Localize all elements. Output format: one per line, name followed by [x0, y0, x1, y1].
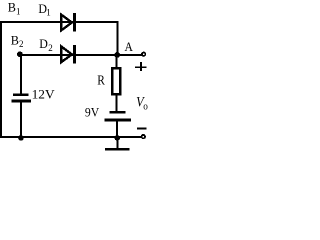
wire right vertical drop from D1 branch to node A	[116, 21, 118, 55]
wire left vertical	[0, 21, 2, 138]
svg-text:D: D	[39, 36, 48, 51]
wire 9V battery to bottom wire	[116, 121, 118, 138]
diode D2	[61, 45, 76, 64]
resistor R body	[112, 68, 120, 94]
battery 9V plate positive	[109, 111, 125, 114]
wire 12V battery top column from B2 node	[20, 55, 22, 94]
svg-text:9V: 9V	[85, 105, 99, 119]
svg-text:R: R	[97, 72, 105, 87]
wire node A down to resistor	[116, 55, 118, 69]
svg-text:o: o	[143, 101, 148, 113]
svg-text:A: A	[125, 39, 134, 54]
minus sign	[137, 127, 147, 129]
svg-text:12V: 12V	[32, 86, 56, 101]
node A junction dot	[114, 52, 120, 58]
svg-text:2: 2	[19, 39, 24, 49]
junction dot 12V bottom	[18, 135, 24, 141]
battery 9V plate negative	[105, 119, 132, 122]
wire D2 branch horizontal from B2 to + terminal	[19, 54, 142, 56]
junction dot 9V bottom	[115, 135, 121, 141]
wire bottom horizontal	[0, 136, 141, 138]
svg-text:1: 1	[16, 6, 21, 16]
diode D1	[61, 13, 76, 32]
node B2 junction dot	[17, 51, 23, 57]
battery 12V plate negative	[12, 100, 32, 103]
svg-text:1: 1	[46, 8, 51, 18]
terminal plus output	[141, 52, 146, 57]
battery 12V plate positive	[13, 93, 29, 96]
svg-text:2: 2	[48, 43, 53, 53]
terminal minus output	[141, 134, 146, 139]
wire resistor to 9V battery	[116, 95, 118, 112]
ground	[117, 138, 119, 149]
plus sign	[135, 66, 146, 68]
wire 12V battery bottom column	[20, 101, 22, 138]
wire top B1 branch horizontal	[0, 21, 119, 23]
